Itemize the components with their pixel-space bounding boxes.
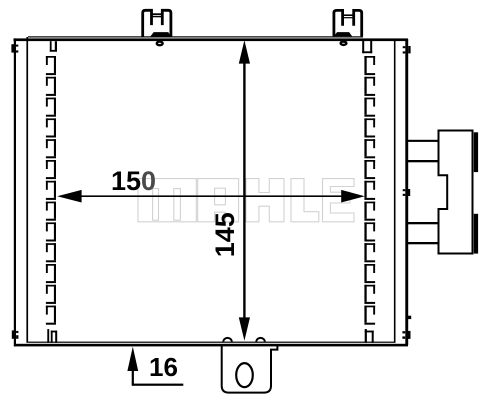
bottom tab left ear [223, 338, 232, 342]
dimension 16 leader shaft [132, 370, 134, 385]
left fin strip teeth [46, 56, 56, 325]
dimension 150 left arrowhead [57, 190, 81, 203]
svg-text:150: 150 [111, 166, 156, 196]
right tank outer line [405, 39, 408, 345]
top header thick line [14, 38, 408, 41]
bracket 1 weld pad [150, 32, 170, 36]
left tank top clip [11, 44, 18, 52]
bracket 2 weld pad [334, 32, 353, 36]
bottom header thin line [28, 342, 395, 343]
right tank inner line [394, 39, 396, 343]
bracket 1 bridge lines [150, 13, 163, 15]
right tank small stud [408, 316, 411, 319]
dimension 150 line [81, 195, 341, 197]
side bracket connector tube bottom [407, 222, 439, 224]
MAHLE watermark [138, 179, 354, 222]
side bracket connector tube top [407, 140, 439, 142]
bracket 2 nub below header [341, 42, 347, 45]
svg-text:145: 145 [210, 212, 240, 257]
right tank middle clip [403, 189, 410, 196]
left tank inner line [26, 37, 28, 343]
left tank bottom clip [12, 330, 19, 338]
dimension 150 right arrowhead [341, 190, 365, 203]
left tank outer line [14, 38, 16, 346]
svg-text:16: 16 [149, 352, 178, 382]
side bracket block outline [439, 131, 473, 254]
mounting bracket 2 outline [334, 10, 362, 36]
right fin strip top hook [362, 41, 372, 53]
side bracket rubber pad top [474, 132, 478, 172]
bottom tab right ear [256, 338, 265, 342]
bottom tab oval hole [236, 363, 253, 387]
top header thin line [28, 36, 363, 37]
dimension 145 line [243, 63, 245, 319]
bracket 2 bridge lines [342, 14, 355, 16]
right fin strip teeth [364, 56, 375, 325]
right tank top clip [403, 46, 411, 54]
left fin strip bottom hook [47, 329, 57, 343]
mounting bracket 1 outline [143, 10, 171, 37]
right fin strip bottom hook [365, 329, 374, 343]
right tank bottom clip [402, 331, 410, 339]
bracket 1 nub below header [157, 42, 163, 46]
dimension 16 leader leg [132, 384, 184, 386]
bottom header thick line [14, 344, 408, 347]
dimension 145 bottom arrowhead [239, 317, 250, 340]
left fin strip top hook [50, 41, 57, 52]
dimension 145 top arrowhead [239, 40, 250, 63]
side bracket rubber pad bottom [474, 214, 478, 254]
bottom mounting tab [222, 344, 278, 393]
dimension 16 arrowhead [127, 347, 138, 371]
